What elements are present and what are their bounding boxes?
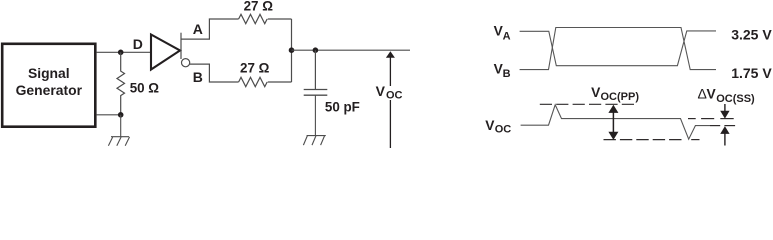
label V_OC (waveform): [485, 118, 511, 135]
ground: [303, 136, 325, 145]
dashed line: steady-state level after transition: [710, 125, 735, 127]
svg-text:27 Ω: 27 Ω: [240, 61, 270, 76]
svg-text:OC(PP): OC(PP): [601, 91, 640, 103]
wire: output splitter bar: [180, 33, 182, 59]
svg-text:D: D: [133, 36, 143, 52]
svg-text:V: V: [376, 83, 386, 99]
svg-text:Δ: Δ: [698, 86, 707, 102]
svg-text:V: V: [707, 87, 717, 102]
label V_B: [494, 61, 511, 80]
svg-text:OC: OC: [386, 89, 403, 101]
delta V_OC(SS) upper arrow (points down to level): [720, 104, 729, 119]
label V_A: [494, 24, 511, 43]
op-amp U1 driver triangle: [151, 35, 180, 70]
wire: output A to resistor row: [181, 19, 239, 39]
svg-text:B: B: [193, 69, 203, 85]
inverter bubble: [182, 59, 190, 67]
wire: top resistor to summing bar: [268, 18, 292, 20]
resistor R3 27 ohm (bottom): [239, 77, 268, 86]
waveform V_B trace: [520, 28, 716, 70]
svg-text:50 pF: 50 pF: [325, 100, 360, 115]
white knockout for V_OC label: [383, 86, 404, 100]
wire: bottom resistor to summing bar: [268, 81, 292, 83]
dashed line: V_OC peak level: [540, 103, 636, 105]
resistor R1 50 ohm (vertical): [117, 52, 125, 115]
label V_OC(PP): [591, 85, 639, 103]
V_OC(PP) measurement arrow (double headed): [608, 105, 618, 140]
svg-text:OC: OC: [495, 123, 512, 135]
wire: generator output to driver input (node D): [97, 51, 150, 53]
svg-text:Generator: Generator: [16, 82, 83, 98]
label V_OC: [376, 83, 403, 101]
V_OC measurement arrow: [386, 51, 395, 148]
wire: output node to the right: [292, 49, 411, 51]
delta V_OC(SS) lower arrow (points up to level): [720, 126, 729, 145]
svg-text:Signal: Signal: [28, 65, 70, 81]
wire: capacitor to ground: [314, 95, 316, 135]
wire: output B to resistor row: [190, 64, 239, 82]
wire: down to capacitor: [314, 50, 316, 89]
junction dot at resistor bottom: [118, 112, 124, 118]
label delta V_OC(SS): [698, 86, 756, 105]
signal generator box: [2, 44, 95, 127]
svg-text:3.25 V: 3.25 V: [731, 27, 772, 43]
svg-text:27 Ω: 27 Ω: [244, 0, 274, 13]
wire: summing bar: [291, 19, 293, 82]
svg-text:A: A: [503, 30, 511, 42]
resistor R2 27 ohm (top): [239, 14, 268, 23]
svg-text:1.75 V: 1.75 V: [731, 65, 772, 81]
waveform V_A trace: [520, 31, 716, 66]
ground: [108, 137, 129, 146]
waveform V_OC trace: [521, 105, 710, 139]
wire to ground: [120, 115, 122, 137]
node D junction dot: [118, 50, 124, 56]
svg-text:A: A: [193, 21, 203, 37]
wire: generator lower terminal: [97, 114, 121, 116]
svg-text:50 Ω: 50 Ω: [130, 81, 160, 96]
junction dot on summing bar: [289, 47, 295, 53]
dashed line: V_OC bottom level (segment after dip): [691, 139, 699, 141]
svg-text:OC(SS): OC(SS): [716, 93, 755, 105]
junction dot at capacitor tap: [313, 47, 319, 53]
capacitor C1 50 pF: [304, 90, 328, 96]
dashed line: V_OC bottom level: [604, 139, 685, 141]
svg-text:B: B: [503, 68, 511, 80]
svg-text:V: V: [485, 118, 495, 133]
dashed line: steady-state level before transition: [688, 118, 734, 120]
